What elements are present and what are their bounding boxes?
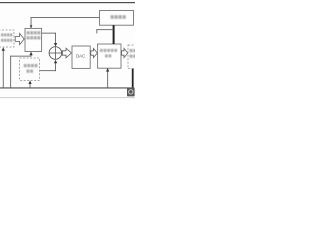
inverter box	[98, 44, 121, 68]
feedback wire bus -> controller bottom	[9, 56, 12, 88]
wire top horizontal	[31, 16, 100, 19]
summing junction	[49, 47, 62, 60]
dashed input box left	[0, 30, 14, 47]
bottom faint border line	[0, 96, 135, 99]
wire controller -> summing node	[42, 32, 56, 35]
block arrow 4 inverter -> motor	[122, 48, 128, 57]
watermark icon bottom-right	[127, 87, 135, 96]
dashed motor box right	[128, 45, 140, 69]
controller box	[25, 28, 42, 51]
bottom bus wire	[0, 87, 128, 88]
feedback wire module -> summing bottom	[40, 69, 56, 72]
thick wire calibration box -> inverter	[113, 25, 115, 44]
dashed feedback module box	[20, 58, 40, 80]
thick wire motor -> bus	[132, 69, 134, 88]
block arrow 3 DAC -> inverter	[91, 48, 98, 57]
block arrow 1 input->controller	[15, 33, 24, 44]
svg-text:DAC: DAC	[76, 54, 85, 59]
left vertical wire bus -> input box	[2, 50, 5, 88]
box U5 top-right (power calibration)	[100, 11, 134, 26]
DAC box	[72, 46, 90, 68]
wire vertical into controller top	[30, 17, 33, 29]
top border line	[0, 2, 135, 3]
wire inverter bottom -> bus	[106, 68, 109, 87]
arrowhead down into controller	[30, 25, 33, 28]
stub wire left of thick wire	[96, 28, 113, 31]
wire bus -> module bottom	[29, 83, 32, 88]
block arrow 2 summing -> DAC	[62, 48, 71, 58]
